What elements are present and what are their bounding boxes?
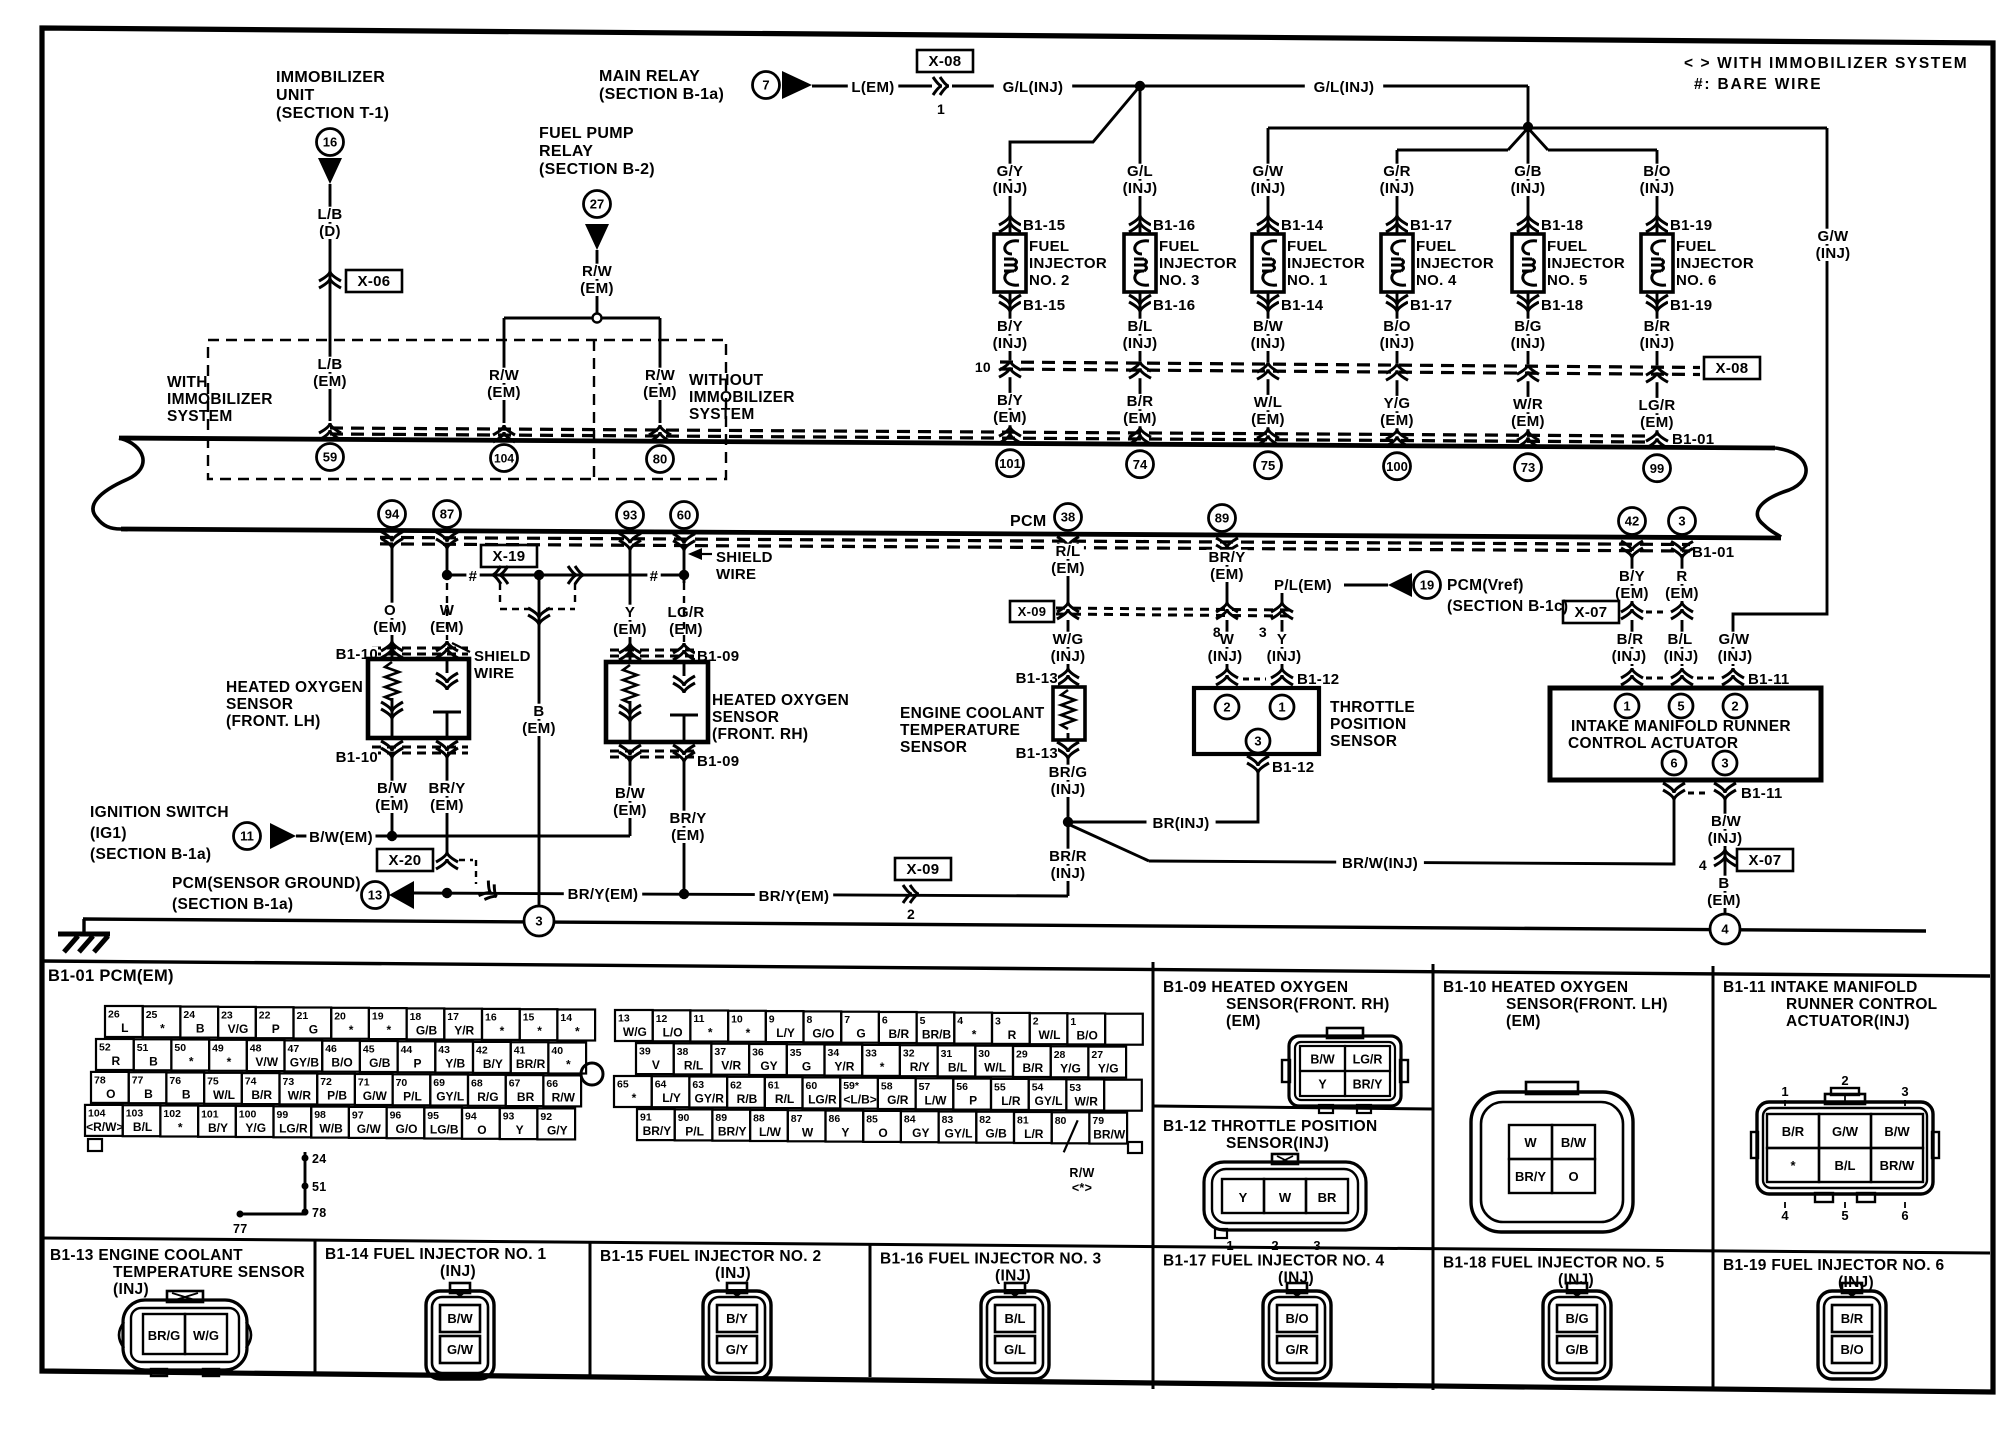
svg-text:4: 4: [1721, 922, 1729, 937]
PCM pin 73: [1515, 454, 1542, 481]
connector B1-01 crossing col6: [1646, 431, 1668, 448]
svg-text:9: 9: [769, 1014, 775, 1026]
svg-text:40: 40: [551, 1045, 563, 1057]
svg-text:FUEL: FUEL: [1676, 238, 1716, 255]
svg-text:1: 1: [1781, 1084, 1788, 1099]
svg-text:(INJ): (INJ): [1251, 335, 1286, 352]
svg-text:*: *: [708, 1026, 713, 1040]
svg-text:99: 99: [1650, 461, 1664, 476]
svg-text:B/O: B/O: [1285, 1311, 1308, 1326]
wire BR(INJ): [1068, 772, 1258, 822]
label G/W (INJ) right: [1808, 228, 1859, 262]
svg-text:*: *: [227, 1055, 232, 1069]
wire B/Y(EM) pin42: [1631, 554, 1634, 602]
svg-text:17: 17: [447, 1011, 459, 1023]
svg-text:R: R: [111, 1054, 120, 1068]
PCM pin 74: [1127, 451, 1154, 478]
svg-text:G/W: G/W: [357, 1122, 382, 1136]
svg-text:BR/W(INJ): BR/W(INJ): [1342, 855, 1418, 872]
svg-text:24: 24: [312, 1152, 327, 1166]
svg-text:(EM): (EM): [522, 720, 556, 737]
svg-text:G/L: G/L: [1004, 1342, 1026, 1357]
label B/R (EM) col2: [1119, 393, 1160, 427]
label PCM: [1010, 513, 1046, 530]
svg-text:Y: Y: [1318, 1078, 1327, 1092]
svg-text:(INJ): (INJ): [440, 1263, 476, 1280]
svg-text:7: 7: [844, 1014, 850, 1026]
svg-text:68: 68: [471, 1077, 483, 1089]
svg-text:(EM): (EM): [643, 384, 677, 401]
svg-text:NO. 4: NO. 4: [1416, 272, 1457, 289]
svg-text:65: 65: [617, 1079, 629, 1091]
svg-text:*: *: [349, 1023, 354, 1037]
svg-text:NO. 6: NO. 6: [1676, 272, 1717, 289]
svg-text:CONTROL ACTUATOR: CONTROL ACTUATOR: [1568, 735, 1738, 752]
svg-text:Y: Y: [1277, 631, 1287, 648]
label G/Y (INJ) col1: [985, 163, 1036, 197]
svg-text:(EM): (EM): [375, 797, 409, 814]
svg-text:PCM: PCM: [1010, 513, 1046, 530]
wire B/R(INJ): [1631, 620, 1634, 666]
svg-text:(EM): (EM): [1506, 1013, 1541, 1030]
svg-text:B1-16 FUEL INJECTOR NO. 3: B1-16 FUEL INJECTOR NO. 3: [880, 1250, 1101, 1267]
chevron below bus2 pin38: [1057, 537, 1079, 554]
wire Y(EM) pin93: [629, 550, 632, 662]
connector X-08 crossing col4: [1386, 363, 1408, 380]
svg-text:B1-19: B1-19: [1670, 297, 1712, 314]
svg-text:L/W: L/W: [759, 1125, 782, 1139]
svg-text:Y: Y: [625, 604, 635, 621]
svg-text:101: 101: [999, 456, 1021, 471]
svg-text:*: *: [972, 1028, 977, 1042]
label G/L (INJ) col2: [1115, 163, 1166, 197]
svg-text:11: 11: [240, 829, 254, 844]
connector B1-18 below injector: [1517, 295, 1590, 314]
wire G/L(INJ) segment 2: [1140, 86, 1528, 126]
node 11 (ignition switch): [234, 823, 261, 850]
connector icon B1-15: [703, 1283, 771, 1379]
svg-text:45: 45: [363, 1044, 375, 1056]
svg-text:O: O: [477, 1123, 486, 1137]
intake manifold runner control actuator body: [1550, 688, 1821, 780]
svg-text:B: B: [196, 1022, 205, 1036]
svg-text:IMMOBILIZER: IMMOBILIZER: [167, 391, 273, 408]
svg-text:G/L(INJ): G/L(INJ): [1003, 79, 1064, 96]
chevron below bus2 pin94: [381, 532, 403, 549]
connector X-09 middle: [1010, 601, 1290, 622]
svg-text:59: 59: [323, 450, 337, 465]
connector X-08 crossing col6: [1646, 365, 1668, 382]
svg-text:(EM): (EM): [580, 280, 614, 297]
svg-text:G/R: G/R: [887, 1093, 909, 1107]
svg-text:G/B: G/B: [369, 1056, 391, 1070]
svg-text:87: 87: [791, 1113, 803, 1125]
label B1-15 FUEL INJECTOR NO. 2: [600, 1248, 821, 1282]
svg-text:BR/R: BR/R: [516, 1057, 546, 1071]
svg-text:*: *: [880, 1060, 885, 1074]
svg-text:73: 73: [283, 1076, 295, 1088]
svg-text:80: 80: [1055, 1115, 1067, 1127]
svg-text:61: 61: [768, 1080, 780, 1092]
svg-text:B1-09 HEATED OXYGEN: B1-09 HEATED OXYGEN: [1163, 979, 1348, 996]
svg-text:R/W: R/W: [645, 367, 676, 384]
connector X-08 crossing col3: [1257, 362, 1279, 379]
svg-text:B/R: B/R: [1022, 1061, 1043, 1075]
svg-text:15: 15: [523, 1012, 535, 1024]
svg-text:79: 79: [1092, 1115, 1104, 1127]
connector B1-12 below TPS: [1247, 756, 1321, 776]
svg-text:*: *: [632, 1091, 637, 1105]
B1-01 dashed line above bus1: [330, 428, 1646, 442]
label O (EM): [369, 602, 410, 636]
svg-text:RELAY: RELAY: [539, 143, 593, 160]
svg-text:G/B: G/B: [1514, 163, 1542, 180]
junction B/W at pin94 column: [387, 831, 397, 841]
svg-text:Y/R: Y/R: [454, 1024, 474, 1038]
svg-text:1: 1: [1070, 1016, 1076, 1028]
svg-text:(INJ): (INJ): [1051, 865, 1086, 882]
label G/R (INJ) col4: [1372, 163, 1423, 197]
svg-text:(EM): (EM): [1380, 412, 1414, 429]
ignition switch label: [90, 804, 229, 863]
svg-text:X-08: X-08: [929, 53, 962, 70]
PCM pin 94: [379, 501, 406, 528]
svg-text:13: 13: [368, 888, 382, 903]
svg-text:84: 84: [904, 1114, 916, 1126]
svg-text:B/W: B/W: [1253, 318, 1284, 335]
svg-text:B/L: B/L: [948, 1060, 967, 1074]
fuel injector NO.3 body: [1124, 215, 1156, 312]
svg-text:L/B: L/B: [317, 356, 342, 373]
svg-text:(SECTION B-1c): (SECTION B-1c): [1447, 598, 1568, 615]
svg-text:12: 12: [656, 1013, 668, 1025]
svg-text:(EM): (EM): [1665, 585, 1699, 602]
wire to vref arrow: [1344, 584, 1388, 587]
label B1-16 FUEL INJECTOR NO. 3: [880, 1250, 1101, 1284]
label B/G (INJ) col5: [1503, 318, 1554, 352]
svg-text:W/R: W/R: [1513, 396, 1543, 413]
node 27 (fuel pump relay): [584, 191, 611, 218]
label fuel injector NO. 4: [1416, 238, 1494, 289]
label B1-09 heated oxygen sensor: [1163, 979, 1390, 1030]
label B1-17 FUEL INJECTOR NO. 4: [1163, 1253, 1384, 1287]
svg-text:MAIN RELAY: MAIN RELAY: [599, 68, 700, 85]
svg-text:W: W: [1279, 1190, 1292, 1205]
svg-text:3: 3: [1313, 1238, 1320, 1253]
svg-text:B/Y: B/Y: [1619, 568, 1645, 585]
svg-text:TEMPERATURE: TEMPERATURE: [900, 722, 1020, 739]
junction BR at ECT: [1063, 817, 1073, 827]
svg-text:B1-01: B1-01: [1692, 544, 1734, 561]
connector X-19 label: [481, 545, 537, 567]
svg-text:R/G: R/G: [477, 1090, 498, 1104]
svg-text:20: 20: [334, 1010, 346, 1022]
wire injector column 4 top: [1396, 162, 1399, 215]
svg-text:(INJ): (INJ): [1380, 180, 1415, 197]
svg-text:(INJ): (INJ): [1251, 180, 1286, 197]
label W/R (EM) col5: [1507, 396, 1548, 430]
svg-text:B/L: B/L: [1835, 1158, 1856, 1173]
svg-text:38: 38: [677, 1046, 689, 1058]
svg-text:G/B: G/B: [985, 1127, 1007, 1141]
engine coolant temperature sensor body: [1053, 687, 1085, 740]
svg-text:WIRE: WIRE: [474, 665, 514, 682]
wire B/W(EM) ignition: [296, 835, 630, 838]
svg-text:(SECTION T-1): (SECTION T-1): [276, 105, 389, 122]
shield wire callout upper: [452, 643, 531, 682]
svg-text:L/W: L/W: [925, 1093, 948, 1107]
ground symbol: [58, 934, 110, 952]
svg-text:LG/R: LG/R: [667, 604, 704, 621]
label B1-19 FUEL INJECTOR NO. 6: [1723, 1257, 1944, 1291]
svg-text:BR/W: BR/W: [1880, 1158, 1915, 1173]
svg-text:GY/L: GY/L: [436, 1090, 464, 1104]
svg-text:GY: GY: [912, 1126, 929, 1140]
svg-text:53: 53: [1069, 1082, 1081, 1094]
svg-text:4: 4: [1699, 857, 1707, 873]
svg-text:46: 46: [325, 1043, 337, 1055]
connector B1-17 above injector: [1386, 215, 1459, 234]
feed wire to injector 3: [1139, 86, 1142, 162]
svg-text:G/W: G/W: [1818, 228, 1849, 245]
wire W/L(EM) col3: [1267, 379, 1270, 433]
wire B/L(INJ): [1681, 620, 1684, 666]
svg-text:64: 64: [655, 1079, 667, 1091]
connector X-08 crossing col2: [1129, 361, 1151, 378]
wire BR/W(INJ): [1149, 800, 1674, 864]
svg-text:X-20: X-20: [389, 852, 422, 869]
svg-text:NO. 2: NO. 2: [1029, 272, 1070, 289]
shield wire bus X-19: [442, 568, 689, 585]
svg-text:89: 89: [715, 1112, 727, 1124]
svg-text:3: 3: [1259, 624, 1267, 640]
svg-text:P/B: P/B: [327, 1089, 347, 1103]
svg-text:GY: GY: [760, 1059, 777, 1073]
svg-text:INJECTOR: INJECTOR: [1676, 255, 1754, 272]
svg-text:51: 51: [312, 1180, 327, 1194]
svg-text:BR/Y: BR/Y: [1208, 549, 1245, 566]
svg-text:G: G: [309, 1023, 318, 1037]
svg-text:B/L: B/L: [133, 1120, 152, 1134]
connector B1-17 below injector: [1386, 295, 1459, 314]
svg-text:57: 57: [919, 1081, 931, 1093]
chevron below bus2 pin87: [436, 532, 458, 549]
svg-text:V/G: V/G: [228, 1022, 249, 1036]
label Y (INJ) TPS: [1259, 631, 1310, 665]
svg-text:44: 44: [401, 1044, 413, 1056]
svg-text:G/W: G/W: [447, 1342, 474, 1357]
svg-text:PCM(SENSOR GROUND): PCM(SENSOR GROUND): [172, 875, 361, 892]
svg-text:30: 30: [978, 1048, 990, 1060]
svg-text:B1-18 FUEL INJECTOR NO. 5: B1-18 FUEL INJECTOR NO. 5: [1443, 1255, 1664, 1272]
label BR/Y (EM) LH: [426, 780, 467, 814]
svg-text:85: 85: [866, 1113, 878, 1125]
connector X-20: [377, 849, 476, 884]
PCM pin 60: [671, 502, 698, 529]
svg-text:*: *: [575, 1025, 580, 1039]
svg-text:BR/Y: BR/Y: [643, 1124, 672, 1138]
connector icon B1-11: [1751, 1073, 1939, 1223]
junction 4 on ground bus: [1710, 914, 1740, 944]
svg-text:V: V: [652, 1058, 660, 1072]
svg-text:R: R: [1008, 1028, 1017, 1042]
svg-text:SHIELD: SHIELD: [474, 648, 531, 665]
svg-text:38: 38: [1061, 510, 1075, 525]
wire B/W(INJ) IMRCA: [1724, 800, 1727, 915]
svg-text:R/L: R/L: [775, 1092, 794, 1106]
svg-text:2: 2: [1731, 699, 1738, 714]
svg-text:(EM): (EM): [1707, 892, 1741, 909]
label B/Y (EM) col1: [989, 392, 1030, 426]
svg-text:BR/Y: BR/Y: [669, 810, 706, 827]
connector B1-16 above injector: [1129, 215, 1202, 234]
svg-text:49: 49: [212, 1042, 224, 1054]
svg-text:75: 75: [207, 1075, 219, 1087]
svg-text:51: 51: [137, 1042, 149, 1054]
feed wire y150 right: [1548, 150, 1657, 162]
arrow to pcm sensor ground: [389, 881, 414, 909]
svg-text:5: 5: [1841, 1208, 1848, 1223]
svg-text:(EM): (EM): [613, 621, 647, 638]
svg-text:62: 62: [730, 1079, 742, 1091]
svg-text:93: 93: [503, 1111, 515, 1123]
wire L(EM): [812, 85, 932, 88]
connector X-06: [319, 270, 402, 292]
connector chevron to PCM pin 59: [319, 423, 341, 440]
svg-text:INJECTOR: INJECTOR: [1287, 255, 1365, 272]
svg-text:24: 24: [183, 1009, 195, 1021]
svg-text:3: 3: [1678, 514, 1685, 529]
svg-text:SENSOR: SENSOR: [712, 709, 779, 726]
svg-text:(INJ): (INJ): [1123, 180, 1158, 197]
svg-text:X-08: X-08: [1716, 360, 1749, 377]
label B (EM) IMRCA: [1703, 875, 1744, 909]
svg-text:3: 3: [1721, 756, 1728, 771]
svg-text:104: 104: [494, 452, 514, 466]
wire B/G(INJ) col5: [1527, 312, 1530, 364]
svg-text:75: 75: [1261, 458, 1275, 473]
wire LG/R(EM) pin60: [683, 550, 686, 583]
svg-text:*: *: [386, 1023, 391, 1037]
wire R(EM) pin3: [1681, 554, 1684, 602]
svg-text:(INJ): (INJ): [1640, 180, 1675, 197]
PCM pin 80: [647, 446, 674, 473]
svg-text:*: *: [160, 1021, 165, 1035]
svg-text:(INJ): (INJ): [1558, 1272, 1594, 1289]
svg-text:(INJ): (INJ): [1123, 335, 1158, 352]
label L/B (EM): [309, 356, 350, 390]
svg-text:42: 42: [1625, 514, 1639, 529]
svg-text:5: 5: [920, 1015, 926, 1027]
svg-text:X-09: X-09: [1018, 604, 1047, 619]
svg-text:31: 31: [941, 1048, 953, 1060]
arrow to PCM vref: [1388, 573, 1412, 597]
svg-text:(INJ): (INJ): [1816, 245, 1851, 262]
label B/R (INJ) col6: [1632, 318, 1683, 352]
svg-text:55: 55: [994, 1081, 1006, 1093]
svg-text:G/W: G/W: [1253, 163, 1284, 180]
svg-text:67: 67: [509, 1078, 521, 1090]
svg-text:L(EM): L(EM): [851, 79, 894, 96]
connector icon B1-09: [1282, 1028, 1408, 1113]
svg-text:Y/G: Y/G: [1384, 395, 1411, 412]
svg-text:INJECTOR: INJECTOR: [1159, 255, 1237, 272]
connector B1-01 crossing col5: [1517, 430, 1539, 447]
svg-text:B/R: B/R: [1841, 1311, 1864, 1326]
connector icon B1-17: [1263, 1283, 1331, 1379]
svg-text:G/Y: G/Y: [547, 1123, 568, 1137]
svg-text:6: 6: [882, 1015, 888, 1027]
svg-text:B1-11: B1-11: [1748, 671, 1790, 688]
svg-text:SENSOR(FRONT. RH): SENSOR(FRONT. RH): [1226, 996, 1390, 1013]
svg-text:B/Y: B/Y: [726, 1311, 748, 1326]
svg-text:W: W: [802, 1125, 814, 1139]
svg-text:42: 42: [476, 1044, 488, 1056]
svg-text:IGNITION SWITCH: IGNITION SWITCH: [90, 804, 229, 821]
svg-text:G/W: G/W: [1832, 1124, 1859, 1139]
svg-text:B1-13: B1-13: [1016, 670, 1058, 687]
label heated oxygen sensor LH: [226, 679, 363, 730]
svg-text:56: 56: [956, 1081, 968, 1093]
svg-text:G/L: G/L: [1127, 163, 1153, 180]
svg-text:(INJ): (INJ): [1511, 180, 1546, 197]
svg-text:PCM(Vref): PCM(Vref): [1447, 577, 1524, 594]
svg-text:94: 94: [465, 1110, 477, 1122]
label R/W (EM) right: [639, 367, 680, 401]
wire G/W right side: [1733, 128, 1827, 666]
svg-text:G/Y: G/Y: [997, 163, 1024, 180]
svg-text:2: 2: [907, 906, 915, 922]
junction BR/Y at X-20 column: [442, 888, 452, 898]
svg-text:W/R: W/R: [1075, 1094, 1099, 1108]
svg-text:B/L: B/L: [1667, 631, 1692, 648]
label fuel injector NO. 3: [1159, 238, 1237, 289]
label R/W (EM) left: [483, 367, 524, 401]
svg-text:B1-10 HEATED OXYGEN: B1-10 HEATED OXYGEN: [1443, 979, 1628, 996]
label BR/Y(EM) 1: [564, 886, 642, 903]
svg-text:Y: Y: [1239, 1190, 1248, 1205]
svg-text:(IG1): (IG1): [90, 825, 127, 842]
wire R/L(EM) pin38: [1067, 550, 1070, 602]
svg-text:<R/W>: <R/W>: [86, 1120, 123, 1134]
svg-text:50: 50: [174, 1042, 186, 1054]
svg-text:Y: Y: [516, 1123, 524, 1137]
svg-text:Y/G: Y/G: [245, 1121, 266, 1135]
svg-text:B1-14: B1-14: [1281, 217, 1324, 234]
svg-text:58: 58: [881, 1081, 893, 1093]
svg-text:3: 3: [995, 1015, 1001, 1027]
svg-text:25: 25: [146, 1009, 158, 1021]
wire LG/R(EM) col6: [1656, 382, 1659, 436]
svg-text:W: W: [1524, 1135, 1537, 1150]
svg-text:13: 13: [618, 1013, 630, 1025]
svg-text:83: 83: [942, 1114, 954, 1126]
svg-text:IMMOBILIZER: IMMOBILIZER: [689, 389, 795, 406]
svg-text:(EM): (EM): [1640, 414, 1674, 431]
svg-text:GY/L: GY/L: [1034, 1094, 1062, 1108]
svg-text:2: 2: [1223, 700, 1230, 715]
svg-text:BR/G: BR/G: [1049, 764, 1088, 781]
svg-text:W/L: W/L: [213, 1088, 235, 1102]
svg-text:B1-11 INTAKE MANIFOLD: B1-11 INTAKE MANIFOLD: [1723, 979, 1918, 996]
svg-text:82: 82: [979, 1114, 991, 1126]
svg-text:54: 54: [1032, 1082, 1044, 1094]
label LG/R (EM): [665, 604, 706, 638]
label BR(INJ): [1147, 815, 1216, 832]
connector icon B1-14: [426, 1283, 494, 1379]
svg-text:INJECTOR: INJECTOR: [1416, 255, 1494, 272]
svg-text:B1-01: B1-01: [1672, 431, 1714, 448]
